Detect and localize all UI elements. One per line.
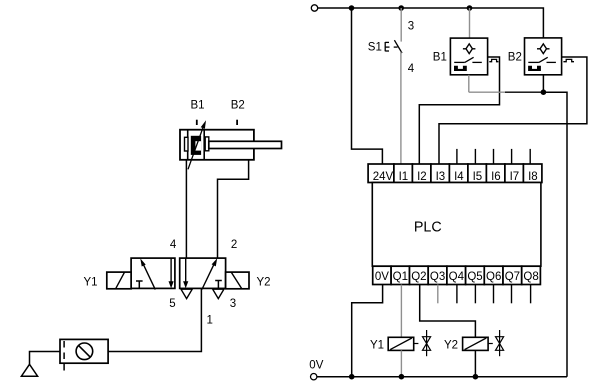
svg-text:3: 3 [230,298,236,310]
wire port4 cylinder to valve [185,160,187,258]
solenoid Y1 diagonal [116,272,125,289]
wire B1 bottom return [468,75,470,92]
solenoid Y2 box [226,272,249,289]
suppressor Y1 stub [414,343,419,345]
svg-text:Y1: Y1 [370,339,384,351]
wire rail to PLC 24V terminal [352,8,383,164]
valve V1 left position box [131,258,175,288]
svg-text:S1: S1 [368,41,382,53]
svg-text:I6: I6 [491,171,501,183]
junction dot rail/S1 [398,5,404,11]
valve right box down flow arrow [183,258,188,288]
sensor B1 contact [454,57,482,62]
svg-text:B2: B2 [508,52,522,64]
PLC output terminal Q6 [484,266,503,284]
PLC input terminal I5 [468,164,487,183]
exhaust triangle port 5 [181,289,192,298]
svg-text:I7: I7 [510,171,520,183]
junction dot 0V/Y1 [399,374,405,380]
svg-text:1: 1 [207,315,213,327]
stub output Q8 [530,285,532,304]
svg-text:Q5: Q5 [467,271,482,283]
wire Y2 to 0V rail [474,350,476,376]
valve right box blocked port T [215,281,222,289]
stub input I7 [511,149,513,164]
sensor B2 contact [528,57,556,62]
svg-text:Q6: Q6 [486,271,501,283]
PLC input terminal I2 [412,164,431,183]
svg-text:Q2: Q2 [411,271,426,283]
junction dot 0V/Y2 [473,374,479,380]
svg-text:4: 4 [170,239,177,251]
switch S1 contact blade [394,40,402,53]
solenoid Y2 diagonal [231,272,242,289]
PLC input terminal I3 [431,164,450,183]
svg-text:PLC: PLC [414,220,442,236]
sensor B1 reed diamond [463,44,476,54]
wire rail to switch S1 [400,8,402,42]
suppressor Y1 symbol [423,330,431,356]
sensor B1 pulse mark [489,59,498,61]
svg-text:I8: I8 [528,171,538,183]
sensor B2 reed diamond [537,44,550,54]
PLC body [372,183,541,267]
suppressor Y2 symbol [496,330,504,356]
PLC input terminal 24V [368,164,394,183]
piston right face [203,130,205,160]
PLC output terminal Q7 [503,266,522,284]
wire port2 cylinder to valve [218,160,249,258]
PLC input terminal I4 [449,164,468,183]
sensor tick B2 [236,120,238,125]
sensor B2 box [525,38,562,75]
suppressor Y2 stub [488,343,493,345]
wire 0V bottom rail [317,376,567,378]
valve right box diagonal flow arrow [202,258,217,289]
svg-text:Q4: Q4 [449,271,465,283]
svg-text:Q8: Q8 [523,271,538,283]
PLC output terminal Q5 [466,266,485,284]
valve left box diagonal flow arrow [140,258,155,289]
wire PLC 0V terminal to 0V rail [352,285,383,377]
cylinder A1 body [180,130,254,160]
svg-text:3: 3 [408,21,414,33]
PLC output terminal Q1 [391,266,409,284]
relay Y1 diagonal [390,338,412,350]
wire B1 output to PLC I2 terminal [419,57,499,164]
PLC input terminal I8 [523,164,542,183]
valve V1 right position box [180,258,226,288]
stub input I6 [493,149,495,164]
piston left face [187,130,189,160]
stub input I4 [456,149,458,164]
svg-text:Q7: Q7 [505,271,520,283]
svg-text:I3: I3 [436,171,446,183]
stub input I8 [529,149,531,164]
exhaust triangle port 3 [213,289,224,298]
PLC output terminal Q8 [522,266,541,284]
node 24V rail terminal circle [311,5,317,11]
output terminal labels [375,271,539,283]
piston cushion spigot [185,137,189,151]
wire rail to sensor B1 [469,8,471,38]
junction dot rail/B1 [467,5,473,11]
junction dot 0V/PLC [349,374,355,380]
junction dot sensors return [541,89,547,95]
sensor B2 magnet symbol [528,66,541,71]
PLC output terminal Q4 [447,266,466,284]
wire B2 bottom return [542,75,544,92]
svg-text:5: 5 [169,298,175,310]
svg-text:I4: I4 [454,171,464,183]
wire sensor return to 0V rail [543,92,567,377]
wire 24V top rail [318,8,544,38]
svg-text:B2: B2 [231,99,245,111]
sensor tick B1 [196,120,198,125]
piston rod [209,141,282,148]
piston position arrow [188,120,206,169]
sensor B2 pulse mark [563,59,574,61]
PLC input terminal I6 [486,164,505,183]
wire supply to service unit [30,352,61,365]
PLC output terminal 0V [373,266,391,284]
compressed air supply triangle [21,364,37,376]
wire B1 return to junction [469,91,505,93]
switch S1 manual actuator E [385,42,397,51]
relay coil Y2 [463,337,489,350]
sensor B1 box [450,38,487,75]
valve left box blocked port T [136,281,143,288]
air service unit dashed line [63,341,65,372]
piston rod flange [205,137,209,151]
stub input I5 [474,149,476,164]
solenoid Y1 box [107,272,131,289]
svg-text:0V: 0V [309,360,323,372]
svg-text:B1: B1 [191,99,205,111]
wire S1 to PLC I1 terminal [400,52,402,164]
wire Q1 to relay Y1 [400,285,402,338]
input terminal labels [373,171,538,183]
PLC input terminal I1 [394,164,413,183]
air service unit circle with slash [76,343,93,360]
relay Y2 diagonal [465,338,487,350]
wire Y1 to 0V rail [400,350,402,376]
svg-text:0V: 0V [375,271,389,283]
svg-text:Y2: Y2 [444,339,458,351]
stub output Q5 [474,285,476,304]
svg-text:4: 4 [408,63,415,75]
wire Q2 to relay Y2 [420,285,476,338]
PLC output terminal Q3 [428,266,447,284]
svg-text:24V: 24V [373,171,394,183]
valve left box down flow arrow [169,258,174,288]
sensor B1 magnet symbol [454,66,467,71]
svg-text:I2: I2 [417,171,427,183]
svg-text:Q1: Q1 [393,271,408,283]
stub output Q7 [511,285,513,304]
PLC input terminal I7 [505,164,524,183]
stub output Q3 (gray) [437,285,439,304]
wire port1 valve to air service unit [108,288,201,351]
stub output Q6 [493,285,495,304]
wire B2 output to PLC I3 terminal [439,57,587,164]
PLC output terminal Q2 [410,266,429,284]
relay coil Y1 [388,337,414,350]
svg-text:Y1: Y1 [84,276,98,288]
node 0V rail terminal circle [311,374,317,380]
svg-text:2: 2 [231,239,237,251]
svg-text:B1: B1 [433,52,447,64]
svg-text:I1: I1 [399,171,409,183]
air service unit box [60,339,108,363]
junction dot rail/24V [349,5,355,11]
svg-text:I5: I5 [473,171,483,183]
svg-text:Q3: Q3 [430,271,445,283]
piston magnet (black block with notch) [191,136,201,155]
svg-text:Y2: Y2 [257,276,271,288]
stub output Q4 [456,285,458,304]
